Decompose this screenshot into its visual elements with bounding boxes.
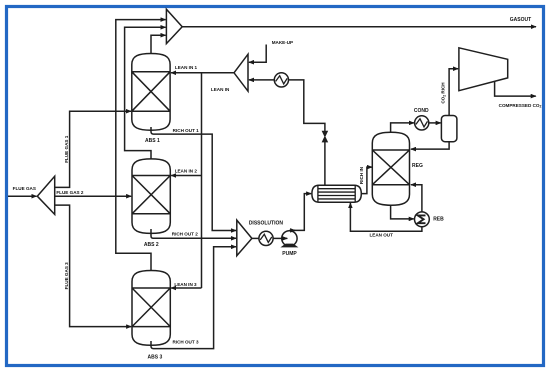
wire REG bottom to reboiler bbox=[391, 205, 414, 219]
drum reflux accumulator bbox=[441, 116, 457, 142]
wire pump outlet to HX bbox=[293, 194, 311, 231]
mixer dissolution (right-opening triangle) bbox=[237, 220, 252, 256]
wire HX to REG rich in bbox=[361, 167, 372, 194]
wire rich out 1 bbox=[151, 127, 236, 231]
heat exchanger cooler E1 bbox=[274, 73, 288, 87]
svg-text:COND: COND bbox=[414, 108, 429, 114]
splitter flue gas (left-pointing triangle) bbox=[37, 176, 54, 214]
heat exchanger COND bbox=[415, 116, 429, 130]
svg-text:RICH OUT 3: RICH OUT 3 bbox=[172, 340, 198, 345]
wire compressed co2 out bbox=[495, 81, 536, 96]
svg-text:LEAN OUT: LEAN OUT bbox=[369, 233, 393, 238]
svg-text:FLUE GAS 1: FLUE GAS 1 bbox=[64, 135, 69, 163]
heat exchanger E2 bbox=[259, 231, 273, 245]
svg-text:LEAN IN 2: LEAN IN 2 bbox=[175, 168, 198, 173]
shell and tube heat exchanger HX bbox=[312, 185, 361, 202]
wire drum bottom reflux to REG bbox=[411, 142, 449, 149]
wire gas riser from ABS2 to top mixer bbox=[125, 27, 166, 159]
wire lean manifold bbox=[171, 72, 234, 74]
svg-text:FLUE GAS: FLUE GAS bbox=[13, 186, 36, 191]
wire lean in 2 bbox=[171, 175, 201, 177]
svg-text:REB: REB bbox=[433, 217, 444, 223]
svg-text:FLUE GAS 3: FLUE GAS 3 bbox=[64, 262, 69, 290]
wire flue gas 1 branch bbox=[55, 111, 131, 187]
vessel ABS3 bbox=[132, 271, 170, 346]
svg-text:RICH IN: RICH IN bbox=[359, 166, 364, 184]
wire make-up feed bbox=[249, 45, 266, 63]
wire cond to drum bbox=[429, 122, 441, 124]
svg-text:GASOUT: GASOUT bbox=[510, 17, 531, 23]
svg-text:LEAN IN 3: LEAN IN 3 bbox=[174, 282, 197, 287]
svg-text:ABS 1: ABS 1 bbox=[145, 138, 160, 144]
svg-text:REG: REG bbox=[412, 163, 423, 169]
wire cooler inlet from valve leg bbox=[289, 80, 325, 132]
wire REG top to condenser bbox=[391, 123, 414, 132]
pump P1 bbox=[282, 231, 297, 246]
svg-text:MAKE-UP: MAKE-UP bbox=[272, 40, 293, 45]
svg-text:DISSOLUTION: DISSOLUTION bbox=[249, 220, 284, 226]
wire GASOUT line bbox=[182, 26, 536, 28]
vessel ABS1 bbox=[132, 54, 170, 131]
svg-text:PUMP: PUMP bbox=[282, 251, 297, 257]
wire FLUE GAS feed bbox=[8, 195, 37, 197]
svg-text:CO2 RICH: CO2 RICH bbox=[441, 82, 447, 104]
wire rich out 3 bbox=[151, 247, 236, 349]
wire lean in 3 bbox=[171, 287, 201, 289]
heat exchanger REB bbox=[415, 212, 430, 227]
mixer lean-in (left-pointing triangle) bbox=[234, 54, 248, 91]
mixer gas out (top triangle) bbox=[166, 9, 182, 43]
svg-text:ABS 3: ABS 3 bbox=[148, 355, 163, 361]
svg-text:ABS 2: ABS 2 bbox=[144, 242, 159, 248]
svg-text:RICH OUT 2: RICH OUT 2 bbox=[172, 232, 198, 237]
wire lean out to HX bbox=[350, 203, 422, 231]
wire reboiler return to REG bbox=[411, 185, 422, 212]
wire mixer to exchanger E2 bbox=[252, 237, 259, 239]
wire drum top to compressor bbox=[449, 69, 458, 116]
wire gas line from ABS1 to top mixer bbox=[151, 35, 166, 53]
svg-text:COMPRESSED CO2: COMPRESSED CO2 bbox=[499, 103, 542, 109]
compressor bbox=[459, 48, 508, 91]
svg-text:FLUE GAS 2: FLUE GAS 2 bbox=[56, 190, 84, 195]
vessel ABS2 bbox=[132, 159, 170, 234]
wire flue gas 3 branch bbox=[55, 205, 132, 327]
wire gas riser from ABS3 to top mixer bbox=[116, 20, 166, 271]
svg-text:LEAN IN: LEAN IN bbox=[211, 87, 230, 92]
svg-text:RICH OUT 1: RICH OUT 1 bbox=[173, 128, 199, 133]
wire rich out 2 bbox=[151, 229, 236, 238]
wire E2 to pump bbox=[273, 237, 287, 239]
vessel REG bbox=[372, 132, 409, 205]
wire flue gas 2 branch bbox=[55, 195, 132, 197]
wire cooler to mixer bbox=[249, 79, 274, 81]
valve bbox=[322, 131, 327, 142]
wire valve to HX top bbox=[324, 142, 326, 186]
svg-text:LEAN IN 1: LEAN IN 1 bbox=[175, 65, 198, 70]
